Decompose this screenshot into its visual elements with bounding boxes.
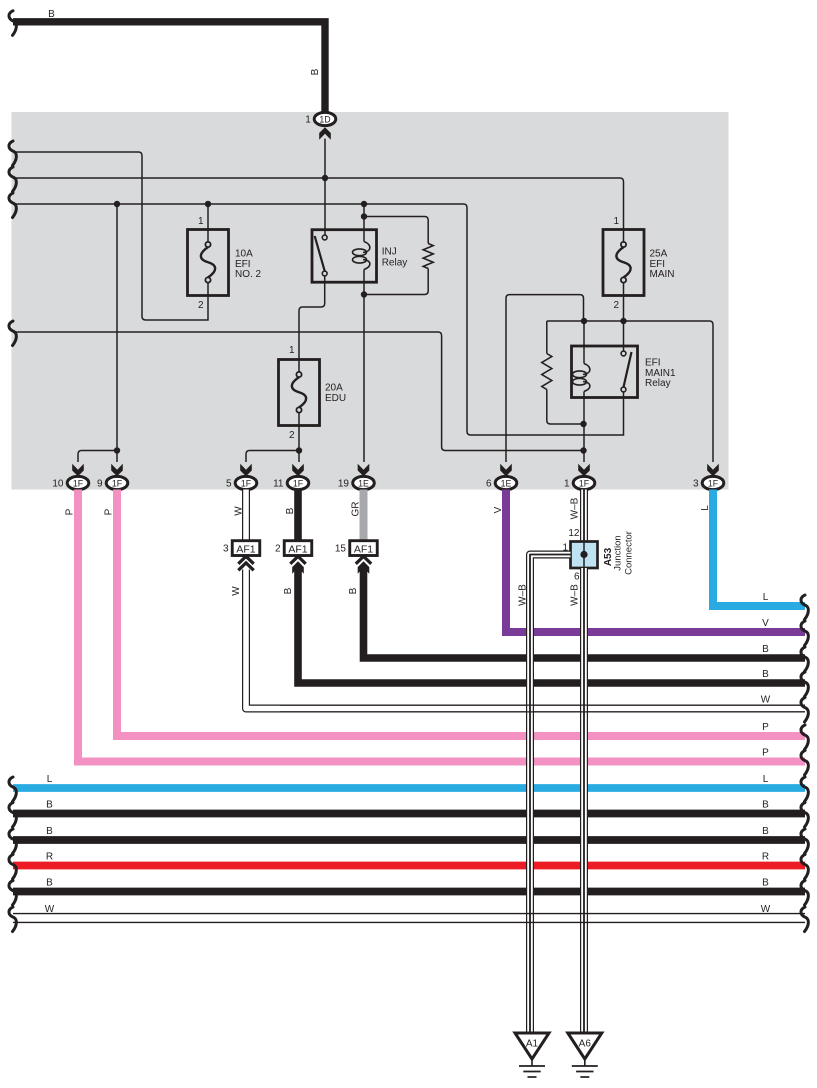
svg-text:3: 3 — [693, 479, 699, 490]
node junction line4 tap — [580, 447, 586, 453]
svg-text:6: 6 — [486, 479, 492, 490]
svg-text:1: 1 — [289, 345, 295, 356]
wire B from 2 AF1 to right (black) — [298, 567, 805, 683]
svg-text:1: 1 — [564, 479, 570, 490]
relay INJ box — [312, 230, 377, 283]
svg-text:1E: 1E — [358, 478, 369, 488]
node A53 junction — [580, 551, 587, 558]
arrow into connector 9 1F — [111, 464, 123, 477]
wire bus R y865.5 — [13, 862, 805, 870]
node INJ coil resistor tap top — [361, 213, 367, 219]
svg-text:NO. 2: NO. 2 — [235, 269, 262, 280]
connector 3 AF1 box — [232, 541, 260, 556]
node junction line2/1D — [322, 175, 328, 181]
node junction line3 fuse1 — [205, 201, 211, 207]
wire line1 (to 10A EFI NO.2 fuse pin 2) — [13, 152, 208, 320]
svg-text:AF1: AF1 — [354, 543, 373, 555]
svg-text:W: W — [234, 506, 245, 516]
wire INJ parallel resistor branch — [364, 217, 428, 295]
svg-text:L: L — [700, 505, 711, 511]
break bus left y813.5 — [9, 803, 16, 828]
break bus right y865.5 — [801, 855, 808, 880]
svg-text:Junction: Junction — [613, 535, 624, 570]
wire line4 (to terminal 1 1F) — [13, 332, 584, 451]
break bus right y891.5 — [801, 881, 808, 906]
wire INJ switch to 20A EDU fuse — [299, 276, 325, 359]
wire EFI MAIN1 coil lead — [583, 321, 585, 462]
svg-text:A6: A6 — [579, 1039, 592, 1050]
svg-text:Relay: Relay — [645, 378, 671, 389]
svg-text:1F: 1F — [73, 478, 84, 488]
break symbol right y736 — [801, 725, 808, 750]
wire 6 1E feed (V terminal) — [506, 295, 584, 462]
node junction at 9/10 split — [114, 447, 120, 453]
svg-text:1: 1 — [613, 216, 619, 227]
node junction line3 INJ coil — [361, 201, 367, 207]
wire bus B y891.5 — [13, 888, 805, 896]
wire EFI MAIN1 resistor branch — [547, 321, 584, 424]
svg-text:2: 2 — [289, 430, 295, 441]
svg-text:P: P — [104, 508, 115, 515]
svg-text:B: B — [46, 826, 53, 837]
svg-text:W: W — [761, 904, 771, 915]
svg-text:2: 2 — [613, 300, 619, 311]
wire 1D drop to INJ relay switch — [324, 139, 326, 235]
wire P from 10 1F (pink) — [78, 490, 805, 762]
svg-text:V: V — [493, 506, 504, 513]
svg-text:1F: 1F — [293, 478, 304, 488]
break symbol right y708.5 — [801, 698, 808, 723]
svg-text:B: B — [310, 68, 321, 75]
coil INJ relay — [363, 242, 370, 253]
wire bus y321 (resistor top to 3 1F) — [547, 321, 713, 462]
svg-text:L: L — [763, 592, 769, 603]
switch EFI MAIN1 relay — [621, 351, 626, 356]
connector 1D — [314, 112, 336, 125]
svg-text:1F: 1F — [708, 478, 719, 488]
switch INJ relay — [322, 235, 327, 240]
svg-text:B: B — [283, 587, 294, 594]
node junction coil feed EFI MAIN1 — [581, 318, 587, 324]
wire bus B y813.5 — [13, 810, 805, 818]
svg-text:L: L — [47, 774, 53, 785]
node INJ coil resistor tap bottom — [361, 291, 367, 297]
wire W from 5 1F (white) — [242, 490, 250, 541]
node junction switch feed EFI MAIN1 — [620, 318, 626, 324]
svg-text:P: P — [762, 748, 769, 759]
wire B (battery feed, thick black) — [13, 22, 325, 113]
svg-text:Connector: Connector — [624, 531, 635, 575]
break symbol line1 — [9, 141, 16, 166]
svg-text:AF1: AF1 — [236, 543, 255, 555]
svg-text:B: B — [762, 669, 769, 680]
connector A53 junction box — [571, 542, 598, 569]
resistor EFI MAIN1 suppression — [542, 354, 552, 390]
svg-text:1E: 1E — [501, 478, 512, 488]
arrow into connector 11 1F — [292, 464, 304, 477]
svg-text:B: B — [762, 644, 769, 655]
arrow into connector 19 1E — [358, 464, 370, 477]
break symbol right y761.5 — [801, 751, 808, 776]
wire 10A fuse pin1 lead — [207, 204, 209, 230]
wire B from 11 1F (black) — [294, 490, 302, 541]
break bus right y788 — [801, 777, 808, 802]
wire bus B y840 — [13, 836, 805, 844]
break bus W right — [801, 907, 808, 932]
svg-text:B: B — [48, 9, 55, 20]
wire 20A fuse pin2 to terminals — [246, 426, 299, 463]
coil EFI MAIN1 relay — [583, 364, 590, 375]
wire bus W y918 — [13, 913, 805, 915]
svg-text:9: 9 — [97, 479, 103, 490]
svg-text:MAIN: MAIN — [650, 269, 675, 280]
svg-text:15: 15 — [335, 544, 347, 555]
break symbol line3 — [9, 193, 16, 218]
connector 5 1F — [235, 476, 257, 489]
node EFI MAIN1 resistor bottom — [580, 421, 586, 427]
svg-text:11: 11 — [273, 479, 284, 490]
connector 11 1F — [287, 476, 309, 489]
wire W-B branch from A53 to A1 ground — [530, 555, 571, 1034]
svg-text:L: L — [763, 774, 769, 785]
svg-text:R: R — [46, 852, 53, 863]
wire 25A pin2 down to EFI MAIN1 switch — [623, 296, 625, 352]
svg-text:Relay: Relay — [382, 257, 408, 268]
wire W-B through A53 vertical — [583, 542, 585, 569]
wire bus L y788 — [13, 784, 805, 792]
svg-text:10: 10 — [52, 479, 64, 490]
arrow chevrons below 3 AF1 — [238, 556, 253, 564]
svg-text:3: 3 — [223, 544, 229, 555]
svg-text:AF1: AF1 — [288, 543, 307, 555]
connector 9 1F — [106, 476, 128, 489]
svg-text:1F: 1F — [112, 478, 123, 488]
break bus right y840 — [801, 829, 808, 854]
svg-text:1D: 1D — [319, 114, 330, 124]
svg-text:1: 1 — [198, 216, 204, 227]
break symbol left end of B wire — [9, 11, 16, 36]
svg-text:GR: GR — [351, 502, 362, 517]
svg-text:1: 1 — [562, 543, 568, 554]
wire GR from 19 1E (gray) — [360, 490, 368, 541]
wire W-B from A53 to A6 ground — [580, 568, 588, 1033]
break symbol line4 — [9, 321, 16, 346]
arrow head on B wire below 2 AF1 — [292, 561, 304, 574]
fuse 10A EFI NO.2 — [188, 230, 229, 296]
svg-text:B: B — [762, 800, 769, 811]
break bus left y865.5 — [9, 855, 16, 880]
svg-text:INJ: INJ — [382, 247, 397, 258]
svg-text:A1: A1 — [526, 1039, 539, 1050]
arrow into connector 10 1F — [72, 464, 84, 477]
wire W from 3 AF1 to right (white) — [246, 570, 805, 709]
svg-text:2: 2 — [198, 300, 204, 311]
break symbol line2 — [9, 167, 16, 192]
break symbol right y658 — [801, 647, 808, 672]
break bus left y840 — [9, 829, 16, 854]
arrow chevrons below 2 AF1 — [290, 556, 305, 564]
arrow chevrons below 15 AF1 — [356, 556, 371, 564]
connector 15 AF1 box — [350, 541, 378, 556]
svg-text:W–B: W–B — [518, 584, 529, 606]
svg-text:W–B: W–B — [569, 584, 580, 606]
arrow into connector 5 1F — [240, 464, 252, 477]
svg-text:P: P — [762, 722, 769, 733]
svg-text:19: 19 — [338, 479, 350, 490]
wire W-B from 1 1F into A53 (white-black) — [580, 490, 588, 542]
wire drop to 9 1F and 10 1F — [78, 204, 117, 462]
wire B from 15 AF1 to right (black) — [364, 567, 806, 658]
arrow into connector 3 1F — [707, 464, 719, 477]
wire V from 6 1E (violet) — [506, 490, 805, 633]
break symbol right y683 — [801, 672, 808, 697]
svg-text:W: W — [45, 904, 55, 915]
break bus W left — [9, 907, 16, 932]
arrow into connector 6 1E — [500, 464, 512, 477]
fuse 20A EDU — [279, 360, 320, 426]
wire W outline overlay (right stack) — [280, 704, 805, 706]
break bus left y891.5 — [9, 881, 16, 906]
svg-text:B: B — [46, 878, 53, 889]
svg-text:R: R — [762, 852, 769, 863]
svg-text:V: V — [762, 618, 769, 629]
arrow head on B wire below 15 AF1 — [358, 561, 370, 574]
node junction line3 x117 — [114, 201, 120, 207]
svg-text:B: B — [285, 507, 296, 514]
svg-text:B: B — [762, 878, 769, 889]
resistor INJ relay suppression — [423, 244, 433, 269]
svg-text:EDU: EDU — [325, 393, 346, 404]
relay EFI MAIN1 box — [572, 346, 638, 398]
break bus right y813.5 — [801, 803, 808, 828]
fuse 25A EFI MAIN — [603, 230, 644, 296]
connector 2 AF1 box — [284, 541, 312, 556]
svg-text:5: 5 — [226, 479, 232, 490]
break symbol right y632 — [801, 621, 808, 646]
wire L from 3 1F (blue) — [713, 490, 805, 607]
connector 19 1E — [353, 476, 375, 489]
svg-text:B: B — [762, 826, 769, 837]
wire P from 9 1F (pink) — [117, 490, 805, 737]
svg-text:W: W — [231, 586, 242, 596]
ground A1 — [515, 1033, 549, 1059]
svg-text:1F: 1F — [579, 478, 590, 488]
connector 3 1F — [702, 476, 724, 489]
connector 1 1F — [573, 476, 595, 489]
svg-text:B: B — [46, 800, 53, 811]
break bus left y788 — [9, 777, 16, 802]
wire line3 (feed bus) — [13, 204, 624, 435]
arrow into connector 1 1F — [578, 464, 590, 477]
node junction 5/11 split — [296, 447, 302, 453]
svg-text:6: 6 — [574, 572, 580, 583]
arrow chevron2 below 3 AF1 — [238, 563, 253, 571]
svg-text:P: P — [65, 508, 76, 515]
wire INJ relay coil feed — [363, 204, 365, 462]
connector 10 1F — [67, 476, 89, 489]
svg-text:12: 12 — [568, 528, 580, 539]
svg-text:1F: 1F — [241, 478, 252, 488]
connector 6 1E — [495, 476, 517, 489]
break symbol right y606 — [801, 595, 808, 620]
svg-text:B: B — [348, 587, 359, 594]
relay block (engine room J/B) background — [12, 112, 729, 490]
wire line2 (to 25A EFI MAIN fuse pin 1) — [13, 178, 624, 230]
svg-text:1: 1 — [305, 115, 311, 126]
svg-text:2: 2 — [275, 544, 281, 555]
svg-text:W–B: W–B — [569, 497, 580, 519]
ground A6 — [568, 1033, 602, 1059]
svg-text:W: W — [761, 695, 771, 706]
arrow into connector 1D — [319, 127, 331, 140]
